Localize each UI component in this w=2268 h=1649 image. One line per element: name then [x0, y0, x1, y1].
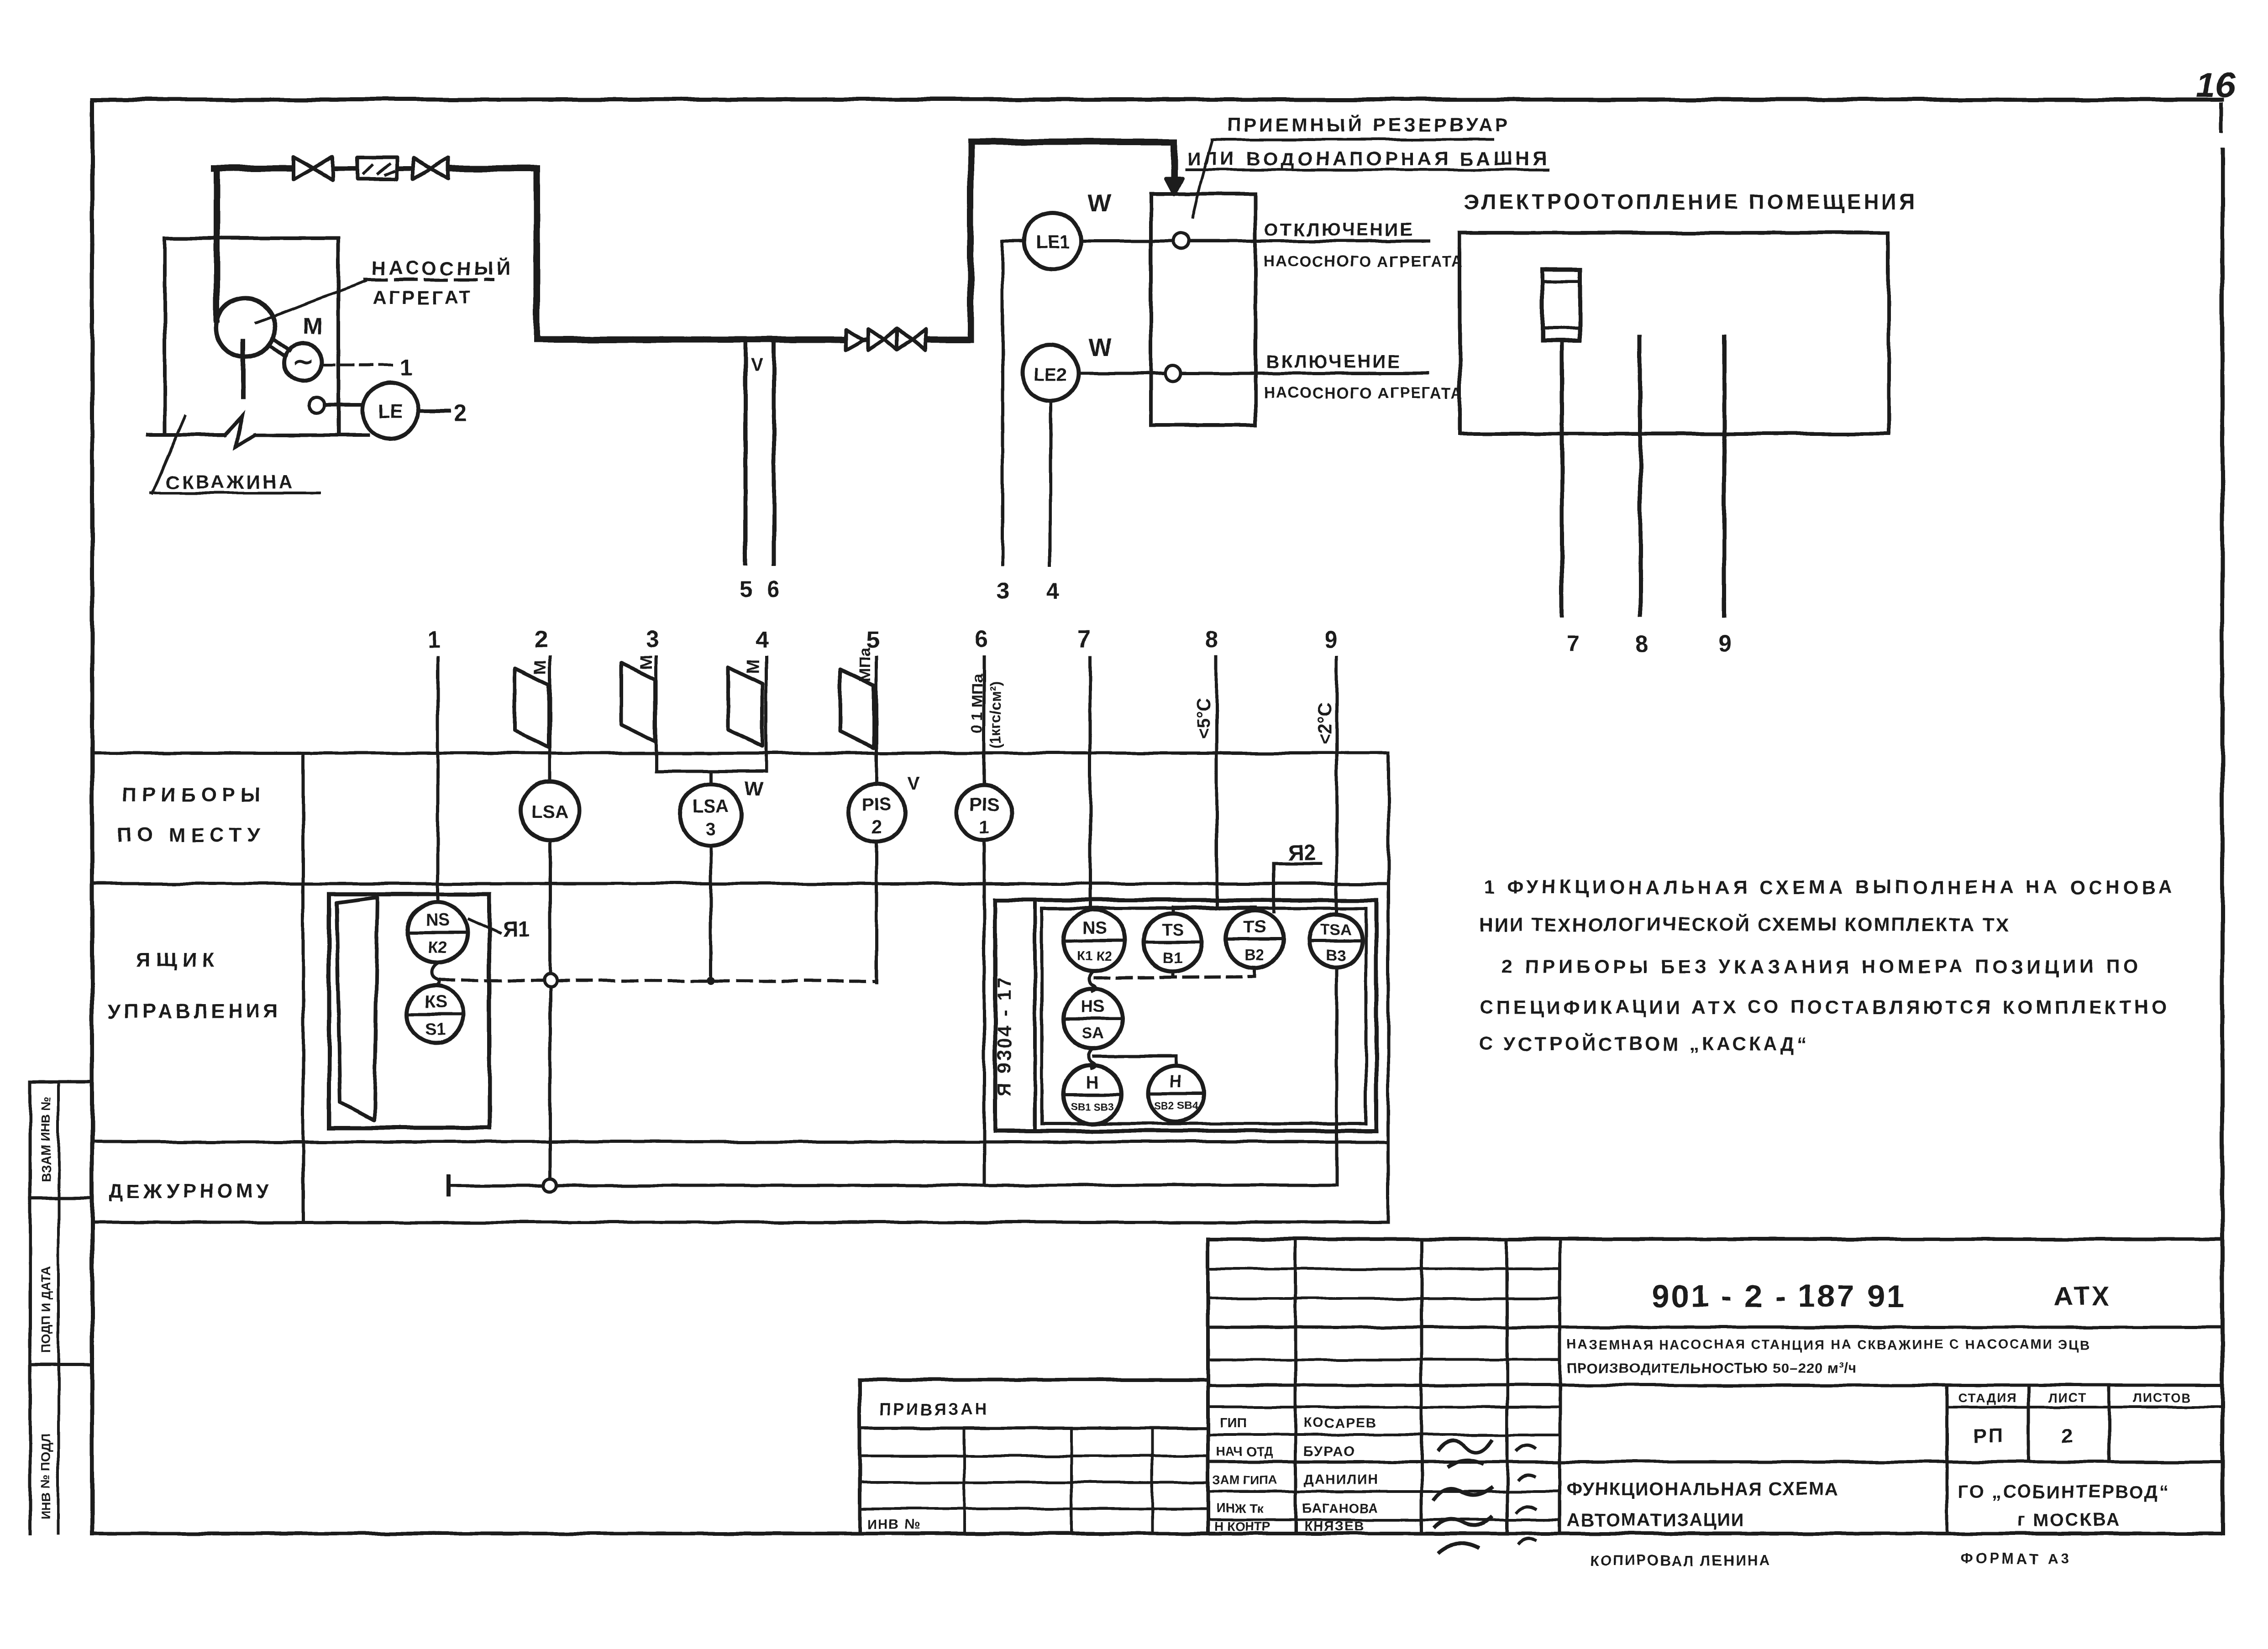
- band table top line: [92, 752, 1388, 755]
- svg-text:ИНЖ Тк: ИНЖ Тк: [1216, 1501, 1264, 1515]
- signal line 8 vertical: [1638, 336, 1643, 616]
- svg-text:ПРИЕМНЫЙ РЕЗЕРВУАР: ПРИЕМНЫЙ РЕЗЕРВУАР: [1227, 114, 1511, 136]
- svg-text:NS: NS: [425, 911, 450, 930]
- signature scribbles: [1433, 1440, 1493, 1553]
- svg-text:LSA: LSA: [693, 796, 729, 817]
- svg-text:ВЗАМ ИНВ №: ВЗАМ ИНВ №: [39, 1096, 53, 1182]
- electric heating room box: [1459, 233, 1889, 434]
- title block vertical 4443: [2027, 1385, 2030, 1462]
- pump shaft: [241, 341, 246, 397]
- left stamp strip divider: [57, 1082, 60, 1534]
- pipe riser from pump: [214, 168, 220, 319]
- title block row line 3083: [1208, 1406, 1560, 1408]
- impulse line 5: [744, 343, 748, 564]
- signal line 7 vertical: [1560, 340, 1564, 616]
- signal line 2 upper: [549, 657, 552, 781]
- title block vertical 2838: [1294, 1239, 1297, 1534]
- svg-text:2 ПРИБОРЫ БЕЗ УКАЗАНИЯ НОМ: 2 ПРИБОРЫ БЕЗ УКАЗАНИЯ НОМЕРА ПОЗИЦИИ ПО: [1502, 956, 2142, 977]
- Я2 label leader: [1272, 864, 1276, 912]
- svg-text:9: 9: [1719, 631, 1732, 657]
- motor circle M1: [284, 344, 322, 381]
- svg-text:Я1: Я1: [502, 917, 530, 942]
- band table right edge: [1387, 753, 1390, 1222]
- svg-text:SА: SА: [1082, 1025, 1103, 1042]
- svg-text:SВ2 SВ4: SВ2 SВ4: [1154, 1099, 1198, 1111]
- svg-text:ТSА: ТSА: [1320, 921, 1351, 938]
- hook link NS K2 to KS S1: [432, 964, 440, 986]
- svg-text:901 - 2 - 187 91: 901 - 2 - 187 91: [1652, 1278, 1906, 1314]
- left stamp strip box divider 1: [30, 1197, 92, 1200]
- svg-text:1: 1: [400, 355, 413, 380]
- impulse line 6: [772, 343, 776, 564]
- valve V1 (gate valve bowtie): [294, 157, 313, 180]
- control box Я1: [329, 894, 489, 1128]
- privyazan header divider: [860, 1427, 1208, 1430]
- svg-text:ОТКЛЮЧЕНИЕ: ОТКЛЮЧЕНИЕ: [1265, 220, 1414, 240]
- signal line 5 upper: [875, 657, 878, 784]
- drawing frame right border: [2221, 151, 2225, 1534]
- well box right wall: [336, 238, 340, 435]
- bus HS SA to H SB2 SB4: [1094, 1055, 1176, 1058]
- svg-text:2: 2: [2062, 1424, 2073, 1447]
- svg-text:В1: В1: [1163, 949, 1182, 967]
- svg-text:LE: LE: [378, 401, 403, 422]
- valve V2 (gate valve bowtie): [413, 158, 431, 179]
- svg-text:АВТОМАТИЗАЦИИ: АВТОМАТИЗАЦИИ: [1567, 1510, 1745, 1530]
- signal wire LE1 to pump stop: [1081, 240, 1428, 243]
- title block row line 2908: [1208, 1326, 2222, 1329]
- instrument LSA 3: [680, 784, 742, 846]
- svg-text:М: М: [531, 660, 550, 675]
- svg-text:ТS: ТS: [1244, 918, 1266, 937]
- svg-text:4: 4: [755, 626, 768, 653]
- svg-text:∼: ∼: [293, 347, 314, 376]
- title block row line 3268: [1208, 1490, 1560, 1493]
- heater element body: [1543, 269, 1580, 340]
- motor coupling: [270, 345, 286, 356]
- instrument KS S1: [407, 986, 464, 1042]
- svg-text:ПОДП И ДАТА: ПОДП И ДАТА: [39, 1266, 53, 1353]
- signal line 3 in band: [655, 657, 658, 771]
- signal line 6 lower: [983, 840, 986, 1185]
- Я2 label underline: [1274, 862, 1320, 865]
- svg-text:9: 9: [1324, 626, 1337, 653]
- svg-text:К2: К2: [428, 938, 447, 957]
- svg-text:М: М: [637, 654, 656, 669]
- svg-text:К1 К2: К1 К2: [1077, 949, 1112, 963]
- duty signal line horizontal: [449, 1185, 1337, 1186]
- svg-text:КОПИРОВАЛ ЛЕНИНА: КОПИРОВАЛ ЛЕНИНА: [1590, 1552, 1771, 1569]
- junction circle on LE2 wire: [1165, 366, 1181, 381]
- privyazan table top: [860, 1378, 1208, 1382]
- svg-text:С УСТРОЙСТВОМ „КАСКАД“: С УСТРОЙСТВОМ „КАСКАД“: [1479, 1032, 1810, 1054]
- svg-text:ФУНКЦИОНАЛЬНАЯ СХЕМА: ФУНКЦИОНАЛЬНАЯ СХЕМА: [1567, 1479, 1839, 1499]
- pipe segment after valve 4: [926, 336, 971, 343]
- dashed bus in control box row: [441, 980, 877, 981]
- svg-text:SВ1 SВ3: SВ1 SВ3: [1071, 1100, 1114, 1112]
- svg-text:2: 2: [534, 626, 547, 653]
- junction loop line2 x bus: [544, 974, 556, 986]
- svg-text:АТХ: АТХ: [2053, 1282, 2112, 1311]
- privyazan column 1: [963, 1428, 966, 1534]
- well box top wall: [165, 236, 338, 240]
- svg-text:НАСОСНОГО АГРЕГАТА: НАСОСНОГО АГРЕГАТА: [1264, 384, 1463, 402]
- bracket stem to LSA3: [709, 771, 713, 784]
- band table bottom line: [92, 1221, 1388, 1224]
- left stamp strip outer edge: [29, 1082, 32, 1534]
- svg-text:W: W: [744, 777, 763, 800]
- svg-text:7: 7: [1567, 631, 1580, 657]
- ground line break zigzag: [225, 416, 255, 446]
- svg-text:6: 6: [767, 576, 780, 602]
- hook link NS K1K2 to HS SA: [1090, 971, 1096, 991]
- svg-text:ПО МЕСТУ: ПО МЕСТУ: [117, 824, 265, 846]
- svg-text:Я2: Я2: [1287, 841, 1315, 865]
- svg-text:1: 1: [427, 626, 441, 653]
- svg-text:<2°C: <2°C: [1315, 703, 1335, 744]
- bracket joining lines 3 and 4: [656, 770, 766, 773]
- signal line 7 in band: [1089, 657, 1092, 910]
- title block row line 3144: [1208, 1434, 1560, 1436]
- svg-text:4: 4: [1046, 578, 1059, 604]
- underline СКВАЖИНА: [151, 492, 320, 494]
- instrument NS K1K2: [1064, 910, 1125, 971]
- svg-text:НАСОСНОГО АГРЕГАТА: НАСОСНОГО АГРЕГАТА: [1264, 253, 1463, 270]
- instrument NS K2: [407, 902, 467, 963]
- flow element (orifice): [358, 157, 397, 179]
- svg-text:ЭЛЕКТРООТОПЛЕНИЕ ПОМЕЩЕНИЯ: ЭЛЕКТРООТОПЛЕНИЕ ПОМЕЩЕНИЯ: [1465, 190, 1917, 214]
- svg-text:LE1: LE1: [1036, 232, 1069, 252]
- svg-text:БАГАНОВА: БАГАНОВА: [1302, 1501, 1379, 1516]
- svg-text:ГИП: ГИП: [1220, 1416, 1247, 1431]
- title block vertical 3114: [1420, 1239, 1423, 1534]
- pipe arrowhead into reservoir: [1166, 179, 1182, 194]
- ground line right segment: [255, 433, 368, 437]
- svg-text:3: 3: [997, 578, 1010, 604]
- svg-text:M: M: [302, 313, 322, 340]
- signal line 6 upper: [983, 657, 986, 785]
- heater element top line: [1543, 280, 1580, 283]
- svg-text:0 1 МПа: 0 1 МПа: [969, 674, 986, 733]
- pipe riser up at x=2126: [967, 142, 974, 340]
- title block row line 2780: [1208, 1267, 1560, 1270]
- signal line from motor to position 1 (dashed): [322, 364, 396, 366]
- svg-text:НАСОСНЫЙ: НАСОСНЫЙ: [372, 257, 513, 279]
- drawing frame top border: [92, 98, 2222, 102]
- svg-text:W: W: [1087, 189, 1111, 216]
- pipe segment A (upper left horizontal): [214, 165, 293, 172]
- svg-text:5: 5: [740, 576, 752, 602]
- pipe drop into reservoir: [1171, 142, 1177, 179]
- svg-text:Н: Н: [1170, 1072, 1182, 1091]
- svg-text:V: V: [908, 774, 920, 794]
- wire LE1 left to line 3: [1003, 240, 1024, 243]
- receiving reservoir: [1151, 194, 1255, 425]
- signal line LSA3 down to bus: [709, 846, 713, 980]
- svg-text:ЛИСТОВ: ЛИСТОВ: [2133, 1391, 2192, 1405]
- svg-text:6: 6: [974, 626, 987, 653]
- pipe segment after valve 2: [449, 165, 537, 172]
- svg-text:ИНВ № ПОДЛ: ИНВ № ПОДЛ: [39, 1434, 53, 1520]
- svg-text:БУРАО: БУРАО: [1304, 1444, 1354, 1459]
- svg-text:НАЧ ОТД: НАЧ ОТД: [1216, 1445, 1273, 1459]
- valve V4 (gate valve bowtie): [898, 329, 913, 350]
- svg-text:ВКЛЮЧЕНИЕ: ВКЛЮЧЕНИЕ: [1266, 352, 1402, 372]
- control box Я2 label column divider: [1033, 900, 1037, 1131]
- pipe segment between check valve and valve 3: [864, 337, 868, 342]
- instrument LE2: [1022, 345, 1079, 402]
- svg-text:ПРОИЗВОДИТЕЛЬНОСТЬЮ 50–220 м³: ПРОИЗВОДИТЕЛЬНОСТЬЮ 50–220 м³/ч: [1567, 1360, 1857, 1376]
- svg-text:НИИ ТЕХНОЛОГИЧЕСКОЙ СХЕМЫ К: НИИ ТЕХНОЛОГИЧЕСКОЙ СХЕМЫ КОМПЛЕКТА ТХ: [1479, 913, 2010, 935]
- pipe segment B (middle horizontal): [537, 336, 845, 343]
- title block row line 3330: [1208, 1518, 1560, 1521]
- hook link HS SA down: [1089, 1048, 1095, 1068]
- band table label column divider: [302, 753, 305, 1222]
- svg-text:г МОСКВА: г МОСКВА: [2018, 1510, 2121, 1530]
- flow element scribble: [363, 163, 395, 175]
- instrument LE (pos 2): [362, 383, 418, 439]
- svg-text:NS: NS: [1082, 919, 1107, 938]
- svg-text:ЛИСТ: ЛИСТ: [2048, 1391, 2086, 1405]
- svg-text:3: 3: [646, 626, 659, 653]
- privyazan row line 2: [860, 1481, 1208, 1484]
- svg-text:УПРАВЛЕНИЯ: УПРАВЛЕНИЯ: [108, 1000, 282, 1022]
- pipe riser down at x=1176: [534, 168, 540, 340]
- signal line 4 vertical: [1049, 402, 1052, 565]
- band table second line: [92, 882, 1388, 885]
- instrument H SB2 SB4: [1148, 1066, 1204, 1121]
- svg-text:ИНВ №: ИНВ №: [867, 1517, 921, 1532]
- svg-text:ИЛИ ВОДОНАПОРНАЯ БАШНЯ: ИЛИ ВОДОНАПОРНАЯ БАШНЯ: [1187, 148, 1550, 169]
- signal line 5 lower: [875, 842, 878, 982]
- svg-text:РП: РП: [1973, 1424, 2005, 1447]
- svg-text:W: W: [1088, 334, 1112, 361]
- svg-text:PIS: PIS: [862, 795, 891, 815]
- svg-text:1: 1: [979, 817, 989, 838]
- privyazan row line 3: [860, 1508, 1208, 1510]
- scale flag on line 2: [515, 668, 549, 747]
- svg-text:В2: В2: [1244, 947, 1264, 964]
- instrument H SB1 SB3: [1063, 1065, 1122, 1124]
- privyazan row line 1: [860, 1455, 1208, 1457]
- svg-text:КОСАРЕВ: КОСАРЕВ: [1304, 1416, 1377, 1431]
- svg-text:ГО „СОБИНТЕРВОД“: ГО „СОБИНТЕРВОД“: [1958, 1482, 2170, 1502]
- svg-text:М: М: [744, 659, 763, 674]
- title block row line 2845: [1208, 1297, 1560, 1300]
- signal line 4 in band: [765, 657, 768, 771]
- svg-text:Н: Н: [1086, 1073, 1098, 1092]
- instrument LSA (pos 2 local): [521, 781, 579, 840]
- duty line T end: [447, 1177, 451, 1195]
- svg-text:СКВАЖИНА: СКВАЖИНА: [165, 471, 294, 492]
- ground line left segment: [148, 433, 225, 437]
- wire LE to label 2: [418, 409, 449, 413]
- svg-text:ДЕЖУРНОМУ: ДЕЖУРНОМУ: [109, 1180, 273, 1202]
- control box Я2 outer: [995, 900, 1376, 1131]
- svg-text:ТS: ТS: [1162, 921, 1184, 940]
- title block vertical 3417: [1559, 1239, 1562, 1534]
- leader line НАСОСНЫЙ АГРЕГАТ: [256, 281, 366, 322]
- drawing frame bottom border: [92, 1532, 2222, 1535]
- well box left wall: [163, 238, 167, 435]
- band table third line: [92, 1141, 1388, 1144]
- leader underline dashed: [365, 278, 492, 282]
- instrument LE1: [1024, 213, 1081, 269]
- heater element bottom line: [1543, 327, 1580, 330]
- pipe segment between flow element and valve 2: [397, 166, 412, 171]
- svg-text:2: 2: [454, 400, 467, 426]
- instrument TS B1: [1144, 913, 1202, 972]
- privyazan column 2: [1070, 1428, 1073, 1534]
- instrument PIS 2: [848, 784, 905, 842]
- pump circle: [216, 298, 275, 357]
- wire TSA B3 down to duty line: [1335, 967, 1339, 1185]
- svg-text:ДАНИЛИН: ДАНИЛИН: [1304, 1472, 1379, 1487]
- svg-text:2: 2: [871, 817, 882, 838]
- signal line 1 in band: [436, 657, 440, 903]
- svg-text:ЗАМ ГИПА: ЗАМ ГИПА: [1213, 1473, 1276, 1487]
- instrument PIS 1: [957, 785, 1012, 840]
- title block vertical 3301: [1506, 1239, 1509, 1534]
- leader line ПРИЕМНЫЙ РЕЗЕРВУАР: [1192, 141, 1212, 217]
- instrument TS B2: [1226, 911, 1283, 968]
- svg-text:LSA: LSA: [532, 802, 568, 822]
- control box Я1 door: [336, 897, 378, 1120]
- svg-text:ФОРМАТ А3: ФОРМАТ А3: [1960, 1550, 2072, 1567]
- scale flag on line 4: [729, 667, 762, 746]
- svg-text:8: 8: [1635, 631, 1648, 657]
- instrument HS SA: [1063, 989, 1123, 1048]
- signal line 9 in band: [1335, 657, 1339, 915]
- leader to Я1 label: [469, 919, 499, 933]
- wire sensor to LE: [325, 403, 362, 407]
- title block row line 3083 right: [1947, 1406, 2222, 1408]
- svg-text:16: 16: [2196, 64, 2236, 105]
- left stamp strip box top: [30, 1080, 92, 1084]
- signal line 8 in band: [1215, 657, 1218, 907]
- svg-text:НАЗЕМНАЯ НАСОСНАЯ СТАНЦИЯ Н: НАЗЕМНАЯ НАСОСНАЯ СТАНЦИЯ НА СКВАЖИНЕ С …: [1567, 1338, 2091, 1352]
- title block vertical 4620: [2108, 1385, 2111, 1462]
- signal wire LE2 to pump start: [1079, 372, 1428, 375]
- title block row line 3035: [1208, 1384, 2222, 1387]
- pipe segment C (upper right horizontal): [971, 139, 1174, 145]
- title block row line 3203: [1208, 1461, 2222, 1464]
- svg-text:НS: НS: [1081, 997, 1105, 1016]
- title block top edge: [1208, 1237, 2222, 1241]
- title block row line 2979: [1208, 1358, 1560, 1361]
- svg-text:СПЕЦИФИКАЦИИ АТХ СО ПОСТАВЛЯ: СПЕЦИФИКАЦИИ АТХ СО ПОСТАВЛЯЮТСЯ КОМПЛЕК…: [1479, 996, 2170, 1018]
- signal line 2 lower: [549, 986, 552, 1180]
- signal line 9 vertical: [1722, 336, 1727, 616]
- svg-text:Я 9304 - 17: Я 9304 - 17: [993, 976, 1015, 1096]
- svg-text:ЯЩИК: ЯЩИК: [136, 949, 220, 971]
- svg-text:PIS: PIS: [970, 795, 999, 815]
- svg-text:8: 8: [1205, 626, 1218, 653]
- svg-text:КS: КS: [425, 993, 447, 1012]
- level sensor circle in well: [309, 398, 325, 413]
- title block left edge: [1206, 1239, 1210, 1534]
- drawing frame left border: [90, 99, 94, 1534]
- title block vertical 4265: [1946, 1385, 1949, 1534]
- date scribbles: [1516, 1445, 1537, 1544]
- svg-text:7: 7: [1077, 626, 1091, 653]
- stem TS B1 to bus: [1171, 972, 1175, 977]
- svg-text:МПа: МПа: [855, 647, 874, 682]
- svg-text:В3: В3: [1326, 947, 1345, 964]
- svg-text:V: V: [751, 355, 763, 375]
- scale flag on line 3: [621, 663, 655, 742]
- stem TS B2 to bus: [1253, 968, 1256, 977]
- control box Я2 inner box: [1042, 908, 1366, 1124]
- svg-text:LE2: LE2: [1034, 365, 1067, 385]
- privyazan table left: [858, 1380, 861, 1534]
- valve V3 (gate valve bowtie): [868, 329, 885, 350]
- svg-text:СТАДИЯ: СТАДИЯ: [1958, 1391, 2017, 1405]
- svg-text:S1: S1: [425, 1019, 446, 1038]
- svg-text:АГРЕГАТ: АГРЕГАТ: [373, 287, 473, 308]
- leader line СКВАЖИНА: [152, 416, 185, 493]
- instrument TSA B3: [1309, 914, 1362, 967]
- stem H SB2 SB4 to bus: [1175, 1056, 1178, 1066]
- junction loop line2 x duty line: [544, 1179, 556, 1192]
- underline ПРИЕМНЫЙ РЕЗЕРВУАР: [1212, 138, 1493, 141]
- left stamp strip box divider 2: [30, 1363, 92, 1366]
- signal line 3 vertical: [1001, 241, 1004, 565]
- svg-text:Н КОНТР: Н КОНТР: [1214, 1519, 1270, 1534]
- svg-text:ПРИВЯЗАН: ПРИВЯЗАН: [879, 1400, 989, 1419]
- svg-text:(1кгс/см²): (1кгс/см²): [987, 681, 1004, 749]
- svg-text:КНЯЗЕВ: КНЯЗЕВ: [1304, 1519, 1365, 1534]
- pipe segment between valve 1 and flow element: [334, 166, 358, 171]
- drawing frame right border tick below sheet number: [2220, 104, 2223, 131]
- svg-text:ПРИБОРЫ: ПРИБОРЫ: [122, 784, 266, 806]
- check valve on pipe B: [845, 330, 864, 350]
- signal line 2 middle: [549, 841, 552, 974]
- junction circle on LE1 wire: [1173, 233, 1189, 249]
- bus under NS K1K2 TS B1 TS B2: [1096, 977, 1255, 978]
- junction dot LSA3 line at bus: [707, 976, 715, 984]
- underline ИЛИ ВОДОНАПОРНАЯ БАШНЯ: [1186, 168, 1548, 171]
- bracket joining TS B1 and TS B2: [1173, 907, 1255, 913]
- svg-text:1 ФУНКЦИОНАЛЬНАЯ СХЕМА ВЫПОЛ: 1 ФУНКЦИОНАЛЬНАЯ СХЕМА ВЫПОЛНЕНА НА ОСНО…: [1484, 876, 2176, 898]
- svg-text:3: 3: [706, 819, 716, 839]
- scale flag on line 5: [840, 669, 874, 748]
- svg-text:<5°C: <5°C: [1194, 698, 1214, 740]
- privyazan column 3: [1151, 1428, 1154, 1534]
